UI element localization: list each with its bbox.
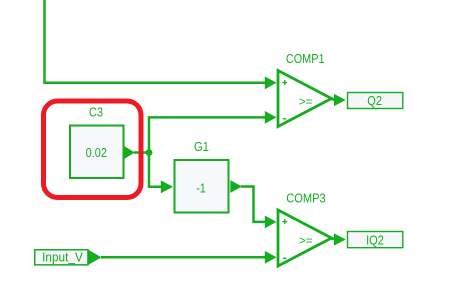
arrowhead into COMP3 - input <box>265 251 277 264</box>
red highlight around C3 <box>44 101 142 198</box>
arrowhead into G1 input <box>161 180 173 193</box>
wire: COMP3 output stub <box>331 238 336 239</box>
wire: junction up then right to COMP1 - input <box>149 117 266 152</box>
svg-text:COMP1: COMP1 <box>286 51 325 66</box>
comparator U: COMP1 <box>278 71 332 127</box>
output tag IQ2 <box>348 232 403 248</box>
G1 output port arrowhead <box>230 180 242 193</box>
svg-text:0.02: 0.02 <box>86 145 107 160</box>
pin - of COMP1 <box>283 118 287 120</box>
gain block G1 (value -1) <box>175 160 229 213</box>
signal source tag Input_V <box>35 249 102 264</box>
svg-text:IQ2: IQ2 <box>366 233 384 248</box>
C3 output port arrowhead <box>124 146 135 159</box>
wire: C3 output to junction (passes under red highlight) <box>134 151 149 154</box>
svg-text:G1: G1 <box>194 139 209 154</box>
wire: from top edge down and right to COMP1 + input <box>45 0 266 83</box>
svg-text:>=: >= <box>299 234 312 248</box>
arrowhead into IQ2 tag <box>334 233 346 245</box>
comparator U: COMP3 <box>278 210 332 266</box>
wire: COMP1 output stub <box>331 99 336 100</box>
junction node <box>146 149 153 156</box>
wire: Input_V to COMP3 - input <box>101 256 266 259</box>
arrowhead into COMP3 + input <box>265 216 277 229</box>
wire: G1 output right, down, right to COMP3 + input <box>241 187 266 222</box>
pin + of COMP1 <box>282 80 287 85</box>
arrowhead into Q2 tag <box>334 94 346 106</box>
pin - of COMP3 <box>283 257 287 259</box>
arrowhead into COMP1 + input <box>265 76 277 89</box>
svg-text:Input_V: Input_V <box>42 249 83 264</box>
arrowhead into COMP1 - input <box>265 111 277 124</box>
svg-text:COMP3: COMP3 <box>286 191 325 206</box>
svg-text:Q2: Q2 <box>367 93 382 108</box>
svg-text:-1: -1 <box>196 181 206 196</box>
pin + of COMP3 <box>282 219 287 224</box>
output tag Q2 <box>348 93 403 109</box>
svg-text:>=: >= <box>299 94 312 108</box>
constant block C3 (value 0.02) <box>70 126 124 179</box>
svg-text:C3: C3 <box>89 105 103 120</box>
wire: junction down then right to G1 input <box>149 153 161 187</box>
